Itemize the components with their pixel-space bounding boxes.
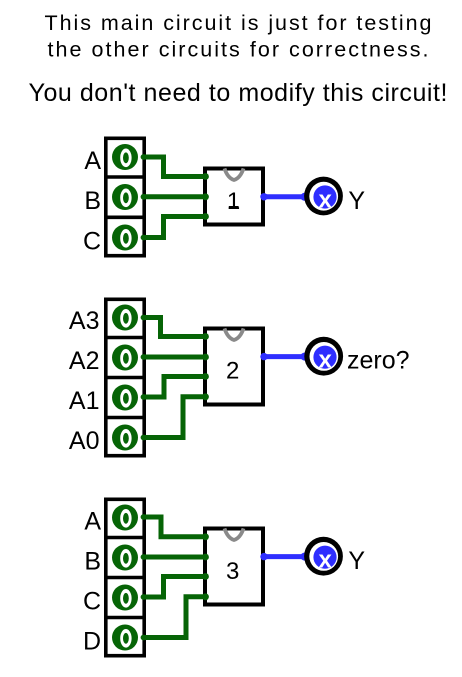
wire B to box3: [144, 555, 205, 560]
wire box2 to output zero? (unknown, blue): [260, 353, 308, 361]
wire A1 to box2: [144, 377, 205, 398]
pin A2 value 0: [112, 345, 138, 371]
svg-text:2: 2: [226, 358, 239, 385]
pin C value 0: [112, 225, 138, 251]
svg-text:x: x: [319, 346, 333, 373]
svg-text:the other circuits for correct: the other circuits for correctness.: [48, 38, 429, 62]
svg-text:C: C: [83, 588, 101, 616]
wire A to box3: [144, 517, 205, 537]
wire A0 to box2: [144, 397, 205, 438]
pin A1 value 0: [112, 385, 138, 411]
pin C (group 3) value 0: [112, 585, 138, 611]
svg-text:B: B: [84, 187, 101, 215]
subcircuit box 2: [205, 328, 263, 404]
svg-text:A0: A0: [69, 427, 100, 455]
subcircuit box 3: [205, 528, 263, 604]
output pin zero?: [304, 337, 343, 376]
pin B value 0: [112, 184, 138, 210]
svg-text:A3: A3: [69, 307, 100, 335]
wire endpoint dots group 3: [141, 514, 209, 640]
svg-text:1: 1: [227, 188, 240, 215]
wire A3 to box2: [144, 318, 205, 337]
wire endpoint dots group 1: [141, 154, 209, 240]
pin A0 value 0: [112, 425, 138, 451]
output pin Y (circuit 1): [304, 177, 343, 216]
input pin stack 3 (pins A,B,C,D): [104, 499, 146, 655]
input pin stack 1 (pins A,B,C): [104, 138, 146, 255]
pin A3 value 0: [112, 305, 138, 331]
wire A to box1: [144, 157, 205, 177]
pin A value 0: [112, 144, 138, 170]
svg-text:A2: A2: [69, 347, 100, 375]
svg-text:D: D: [83, 628, 101, 656]
output pin Y (circuit 3): [304, 537, 343, 576]
svg-text:A1: A1: [69, 387, 100, 415]
input pin stack 2 (pins A3..A0): [104, 299, 146, 455]
svg-text:A: A: [84, 147, 101, 175]
svg-text:C: C: [83, 228, 101, 256]
svg-text:3: 3: [226, 558, 239, 585]
pin B (group 3) value 0: [112, 545, 138, 571]
svg-text:Y: Y: [348, 187, 365, 215]
wire C to box3: [144, 577, 205, 598]
svg-text:B: B: [84, 548, 101, 576]
pin A (group 3) value 0: [112, 505, 138, 531]
wire B to box1: [144, 194, 205, 199]
svg-text:zero?: zero?: [347, 347, 410, 375]
subcircuit box 1: [205, 168, 263, 224]
svg-text:A: A: [84, 508, 101, 536]
svg-text:This main circuit is just for: This main circuit is just for testing: [45, 11, 432, 35]
wire endpoint dots group 2: [141, 315, 209, 441]
svg-text:Y: Y: [348, 547, 365, 575]
svg-text:x: x: [319, 546, 333, 573]
wire box1 to output Y (unknown, blue): [260, 193, 308, 201]
wire D to box3: [144, 597, 205, 638]
svg-text:x: x: [319, 186, 333, 213]
svg-text:You don't need to modify this: You don't need to modify this circuit!: [29, 79, 448, 107]
wire box3 to output Y (unknown, blue): [260, 553, 308, 561]
pin D value 0: [112, 625, 138, 651]
wire C to box1: [144, 217, 205, 238]
wire A2 to box2: [144, 355, 205, 360]
